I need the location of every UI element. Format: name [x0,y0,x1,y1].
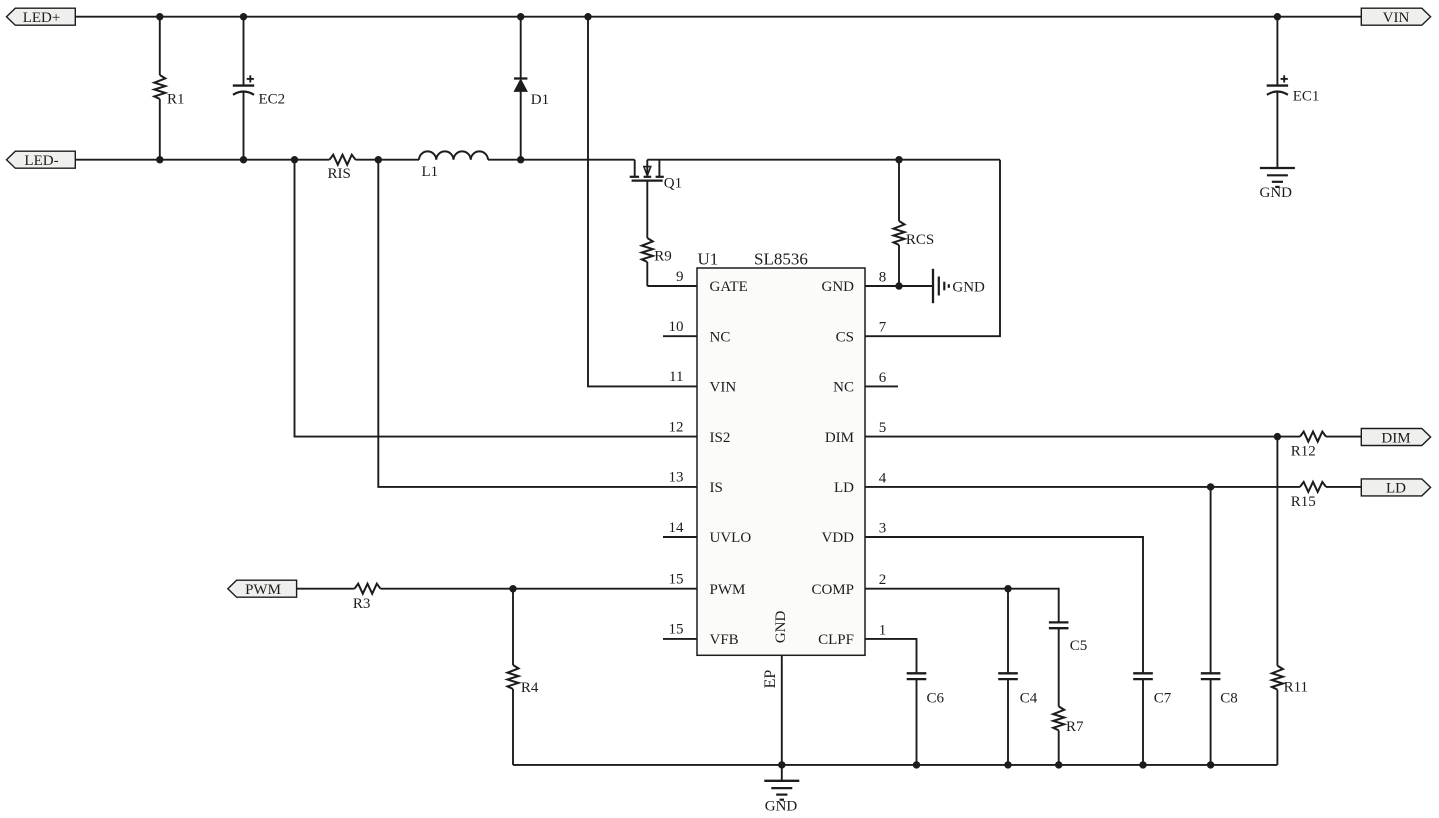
wire pin 4 LD row [865,486,1361,488]
pin 12 IS2 [669,419,731,445]
svg-text:14: 14 [669,520,685,536]
port PWM flag [228,580,297,598]
svg-text:EC2: EC2 [259,92,286,108]
svg-text:8: 8 [879,269,887,285]
svg-text:C6: C6 [927,690,945,706]
svg-text:D1: D1 [531,92,549,108]
svg-text:10: 10 [669,319,684,335]
pin 13 IS [669,470,723,496]
svg-text:R15: R15 [1291,494,1316,510]
wire CS drop to pin 7 [865,160,1000,337]
wire IS2 branch to pin 12 [295,160,698,437]
svg-text:3: 3 [879,520,887,536]
svg-text:CS: CS [836,329,854,345]
svg-text:SL8536: SL8536 [754,249,808,268]
wire IS branch to pin 13 [378,160,697,487]
capacitor C6 [907,673,945,765]
svg-text:R11: R11 [1284,680,1308,696]
resistor RCS [894,160,935,286]
capacitor C5 [1049,622,1087,706]
node LED- rail D1 junction [517,156,524,163]
node bottom rail R7 junction [1055,761,1062,768]
node DIM row R11 junction [1274,433,1281,440]
pin 14 UVLO [663,520,751,546]
svg-text:CLPF: CLPF [818,632,854,648]
svg-text:PWM: PWM [245,582,281,598]
svg-text:VDD: VDD [822,530,855,546]
wire pin 1 CLPF to C6 [865,639,917,673]
svg-text:GND: GND [822,279,855,295]
svg-text:6: 6 [879,370,887,386]
svg-text:15: 15 [669,622,684,638]
resistor R12 [1291,432,1326,460]
svg-text:VIN: VIN [710,380,737,396]
capacitor C8 [1201,487,1238,765]
wire Q1 to CS corner [647,159,1000,161]
svg-text:LD: LD [1386,481,1406,497]
wire LED- rail [75,159,634,161]
svg-text:R9: R9 [654,249,672,265]
pin 3 VDD [822,520,887,546]
svg-text:11: 11 [669,369,683,385]
node LED- rail IS junction [375,156,382,163]
svg-text:R7: R7 [1066,719,1084,735]
svg-text:GND: GND [773,610,789,643]
svg-text:DIM: DIM [825,430,854,446]
svg-text:GND: GND [1260,185,1293,201]
svg-text:IS: IS [710,480,723,496]
svg-text:VFB: VFB [710,632,739,648]
node bottom rail C6 junction [913,761,920,768]
pin EP label [762,670,779,689]
wire PWM row [297,588,697,590]
svg-text:4: 4 [879,470,887,486]
node drain rail RCS junction [895,156,902,163]
wire bottom ground rail [513,764,1277,766]
svg-text:9: 9 [676,269,684,285]
pin 1 CLPF [818,622,886,648]
pin 8 GND [822,269,887,295]
svg-text:R3: R3 [353,596,371,612]
wire pin 8 to ground [865,285,933,287]
node top rail D1 junction [517,13,524,20]
node PWM row R4 junction [509,585,516,592]
pin 5 DIM [825,420,886,446]
diode D1 [514,17,549,160]
capacitor C7 [1133,673,1172,765]
svg-text:COMP: COMP [811,582,854,598]
node top rail EC2 junction [240,13,247,20]
svg-text:LED+: LED+ [23,10,61,26]
capacitor EC1 [1267,17,1320,168]
node top rail EC1 junction [1274,13,1281,20]
svg-text:12: 12 [669,419,684,435]
node top rail VIN-drop junction [584,13,591,20]
capacitor C4 [998,589,1038,765]
pin GND rotated label inside U1 [773,610,789,643]
svg-text:UVLO: UVLO [710,530,752,546]
resistor R4 [508,589,539,765]
svg-text:R1: R1 [167,92,185,108]
resistor RIS [328,155,356,182]
svg-text:Q1: Q1 [664,175,682,191]
svg-text:5: 5 [879,420,887,436]
svg-text:GATE: GATE [710,279,748,295]
resistor R9 [642,181,697,286]
svg-text:RCS: RCS [906,232,934,248]
svg-text:RIS: RIS [328,166,351,182]
inductor L1 [419,151,488,180]
svg-text:2: 2 [879,572,887,588]
resistor R1 [154,17,184,160]
pin 15 PWM [669,572,746,598]
pin 4 LD [834,470,887,496]
capacitor EC2 [233,17,285,160]
svg-text:7: 7 [879,320,887,336]
node COMP row C4 junction [1004,585,1011,592]
svg-text:U1: U1 [698,249,719,268]
svg-text:13: 13 [669,470,684,486]
resistor R7 [1053,706,1084,765]
pin 2 COMP [811,572,886,598]
svg-text:15: 15 [669,572,684,588]
node pin 8 RCS junction [895,282,902,289]
node LED- rail EC2 junction [240,156,247,163]
svg-text:C8: C8 [1220,690,1238,706]
ground GND at pin 8 [933,269,985,303]
pin 6 NC [833,370,898,396]
wire VIN drop to pin 11 [588,17,697,387]
node LED- rail R1 junction [156,156,163,163]
svg-text:NC: NC [710,329,731,345]
ground GND bottom [764,765,799,815]
node bottom rail C4 junction [1004,761,1011,768]
pin 7 CS [836,320,887,346]
wire pin 2 COMP to C5 [865,589,1059,623]
wire pin 5 DIM row [865,436,1361,438]
svg-text:PWM: PWM [710,582,746,598]
node bottom rail C8 junction [1207,761,1214,768]
svg-text:LED-: LED- [24,153,58,169]
svg-text:IS2: IS2 [710,430,731,446]
op-amp U1 SL8536 body [697,249,865,655]
wire pin 3 VDD to C7 [865,537,1143,673]
resistor R11 [1272,437,1308,765]
svg-text:EP: EP [762,670,779,689]
node bottom rail C7 junction [1139,761,1146,768]
svg-text:C7: C7 [1154,690,1172,706]
svg-text:EC1: EC1 [1293,89,1320,105]
svg-text:NC: NC [833,380,854,396]
svg-text:R4: R4 [521,680,539,696]
wire EP to bottom rail [781,655,783,765]
node top rail R1 junction [156,13,163,20]
svg-text:LD: LD [834,480,854,496]
resistor R3 [353,584,381,613]
port LD flag [1361,479,1430,497]
svg-text:1: 1 [879,622,887,638]
resistor R15 [1291,482,1326,510]
transistor Q1 [630,160,682,192]
wire top rail LED+ to VIN [75,16,1361,18]
svg-text:C4: C4 [1020,690,1038,706]
port VIN flag [1361,8,1430,26]
svg-text:GND: GND [765,798,798,814]
svg-text:C5: C5 [1070,638,1088,654]
node LD row C8 junction [1207,483,1214,490]
node bottom rail EP junction [778,761,785,768]
pin 15 VFB [663,622,739,648]
port DIM flag [1361,429,1430,447]
svg-text:VIN: VIN [1383,10,1410,26]
svg-text:GND: GND [952,280,985,296]
port LED+ flag [7,8,76,26]
svg-text:R12: R12 [1291,444,1316,460]
port LED- flag [7,151,76,169]
svg-text:DIM: DIM [1381,430,1410,446]
pin 9 GATE [676,269,748,295]
node LED- rail IS2 junction [291,156,298,163]
svg-text:L1: L1 [422,164,439,180]
pin 10 NC [663,319,730,345]
pin 11 VIN [669,369,736,395]
ground GND under EC1 [1260,168,1295,201]
